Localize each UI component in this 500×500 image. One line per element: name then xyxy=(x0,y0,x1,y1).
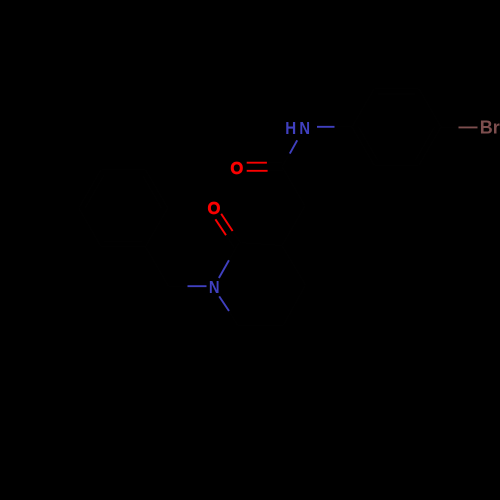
bond N2-C6p dark half xyxy=(229,311,238,326)
bond C4-C5 xyxy=(419,127,441,166)
bond C7=O1 dark halves xyxy=(267,162,283,164)
bond C6p-C5p xyxy=(238,324,284,327)
bond C10-C11 benzyl xyxy=(146,247,169,287)
bond C2-C3 xyxy=(374,88,419,90)
bond N2-C2p blue half xyxy=(219,260,229,278)
bond C2p=O2 dark halves xyxy=(233,231,241,244)
bond C7-C8 xyxy=(282,167,305,207)
bond N1-C7 dark half xyxy=(282,154,290,167)
bond C6-C1 inner aromatic line xyxy=(359,127,378,160)
svg-text:N: N xyxy=(209,278,220,298)
bond C1-C2 xyxy=(352,89,374,128)
bond C4p-C3p xyxy=(282,246,306,286)
bond C2p-N2 dark half xyxy=(229,243,239,261)
bond C3p-C2p xyxy=(239,243,282,246)
bond C3-C4 xyxy=(419,89,441,128)
bond C2p=O2 red halves (double bond) xyxy=(221,214,232,231)
svg-text:O: O xyxy=(207,197,220,218)
bond N2-C10 blue half xyxy=(188,285,207,287)
svg-text:N: N xyxy=(299,119,310,139)
bond N1-C1 blue half xyxy=(317,126,335,128)
bond C8-C3p xyxy=(282,206,305,246)
bond C4-C5 inner aromatic line xyxy=(416,127,435,160)
bond C5-C6 xyxy=(374,165,419,167)
bond C2-C3 inner aromatic line xyxy=(377,93,416,95)
benzene ring 1 (4-bromophenyl) xyxy=(79,89,459,326)
bond C7=O1 red halves (double bond) xyxy=(247,162,267,164)
bond N2-C10 dark half xyxy=(169,285,188,287)
svg-text:O: O xyxy=(230,157,243,178)
bond N2-C6p blue half xyxy=(219,296,229,311)
bond C5p-C4p xyxy=(284,285,306,325)
bond C4-Br dark half xyxy=(441,126,459,128)
bond N1-C7 blue half xyxy=(290,140,297,153)
bond C4-Br maroon half xyxy=(459,126,478,128)
benzene ring 2 xyxy=(146,208,168,247)
svg-text:Br: Br xyxy=(480,118,500,138)
svg-text:H: H xyxy=(285,118,296,139)
bond C6-C1 xyxy=(352,127,374,166)
bond C1-N1 dark half xyxy=(335,126,353,128)
